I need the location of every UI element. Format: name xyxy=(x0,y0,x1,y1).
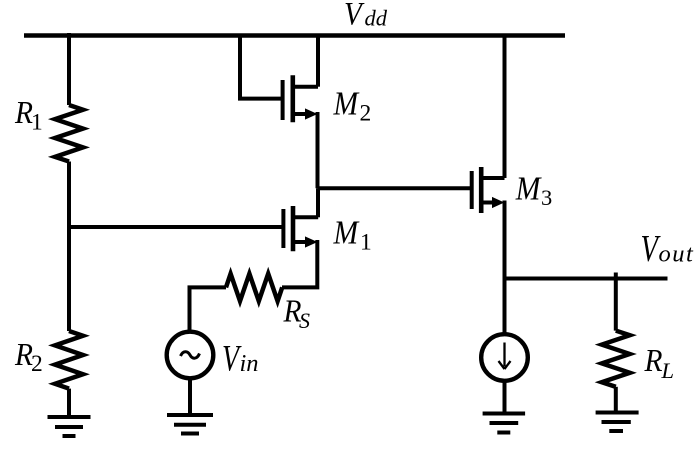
svg-text:V: V xyxy=(344,0,365,32)
node Vout wire xyxy=(505,277,668,281)
transistor M3 xyxy=(472,167,505,213)
wire (Vin to ground) xyxy=(188,378,192,415)
wire (R1 to R2) xyxy=(67,162,71,332)
wire (Vdd to R1) xyxy=(67,33,71,105)
label Vout xyxy=(641,228,695,270)
wire (node A to M3 gate) xyxy=(318,186,471,190)
svg-text:2: 2 xyxy=(360,101,372,127)
wire (RL to ground) xyxy=(614,387,618,413)
svg-text:2: 2 xyxy=(31,351,43,377)
ground (R2) xyxy=(48,417,91,436)
wire (bias node to M1 gate) xyxy=(69,225,282,229)
label Vdd xyxy=(344,0,388,32)
svg-text:R: R xyxy=(644,343,663,378)
Vdd rail xyxy=(24,33,565,38)
label M2 xyxy=(333,84,372,126)
ground (RL) xyxy=(596,413,639,432)
ground (current source) xyxy=(483,414,525,433)
wire (RS to Vin) xyxy=(190,287,227,332)
wire (Vout to RL) xyxy=(614,273,618,331)
svg-text:M: M xyxy=(333,84,360,121)
wire (Vout to current source) xyxy=(503,279,507,336)
svg-text:1: 1 xyxy=(360,230,372,256)
resistor RL xyxy=(602,331,630,387)
wire (current source to ground) xyxy=(503,381,507,414)
resistor R2 xyxy=(55,331,83,389)
voltage source Vin xyxy=(167,332,214,379)
svg-text:L: L xyxy=(661,358,675,383)
svg-text:1: 1 xyxy=(31,110,43,136)
svg-text:dd: dd xyxy=(365,6,388,31)
label RL xyxy=(644,343,674,383)
transistor M1 xyxy=(283,206,318,251)
svg-text:S: S xyxy=(299,308,310,333)
label RS xyxy=(283,293,310,333)
wire (R2 to ground) xyxy=(67,389,71,417)
wire (node A down to M1 drain) xyxy=(316,188,320,217)
svg-text:in: in xyxy=(240,350,259,377)
svg-text:3: 3 xyxy=(541,185,552,210)
label M1 xyxy=(333,213,372,255)
resistor R1 xyxy=(55,105,83,162)
label R2 xyxy=(14,337,43,378)
label M3 xyxy=(515,169,552,209)
svg-text:M: M xyxy=(515,169,542,206)
ground (Vin) xyxy=(167,415,213,434)
wire (M1 source to RS) xyxy=(282,240,317,287)
wire (M3 drain to Vdd) xyxy=(503,36,507,179)
wire (M2 drain to Vdd) xyxy=(316,36,320,87)
label Vin xyxy=(222,339,259,380)
current source I1 xyxy=(481,334,528,381)
svg-text:out: out xyxy=(659,241,695,268)
wire (M3 source to Vout node) xyxy=(503,201,507,279)
resistor RS xyxy=(226,274,282,301)
wire (M2 source down to node A) xyxy=(316,112,320,188)
transistor M2 xyxy=(283,75,318,122)
svg-text:M: M xyxy=(333,213,360,250)
label R1 xyxy=(14,95,43,136)
wire (Vdd to M2 gate) xyxy=(240,34,281,99)
